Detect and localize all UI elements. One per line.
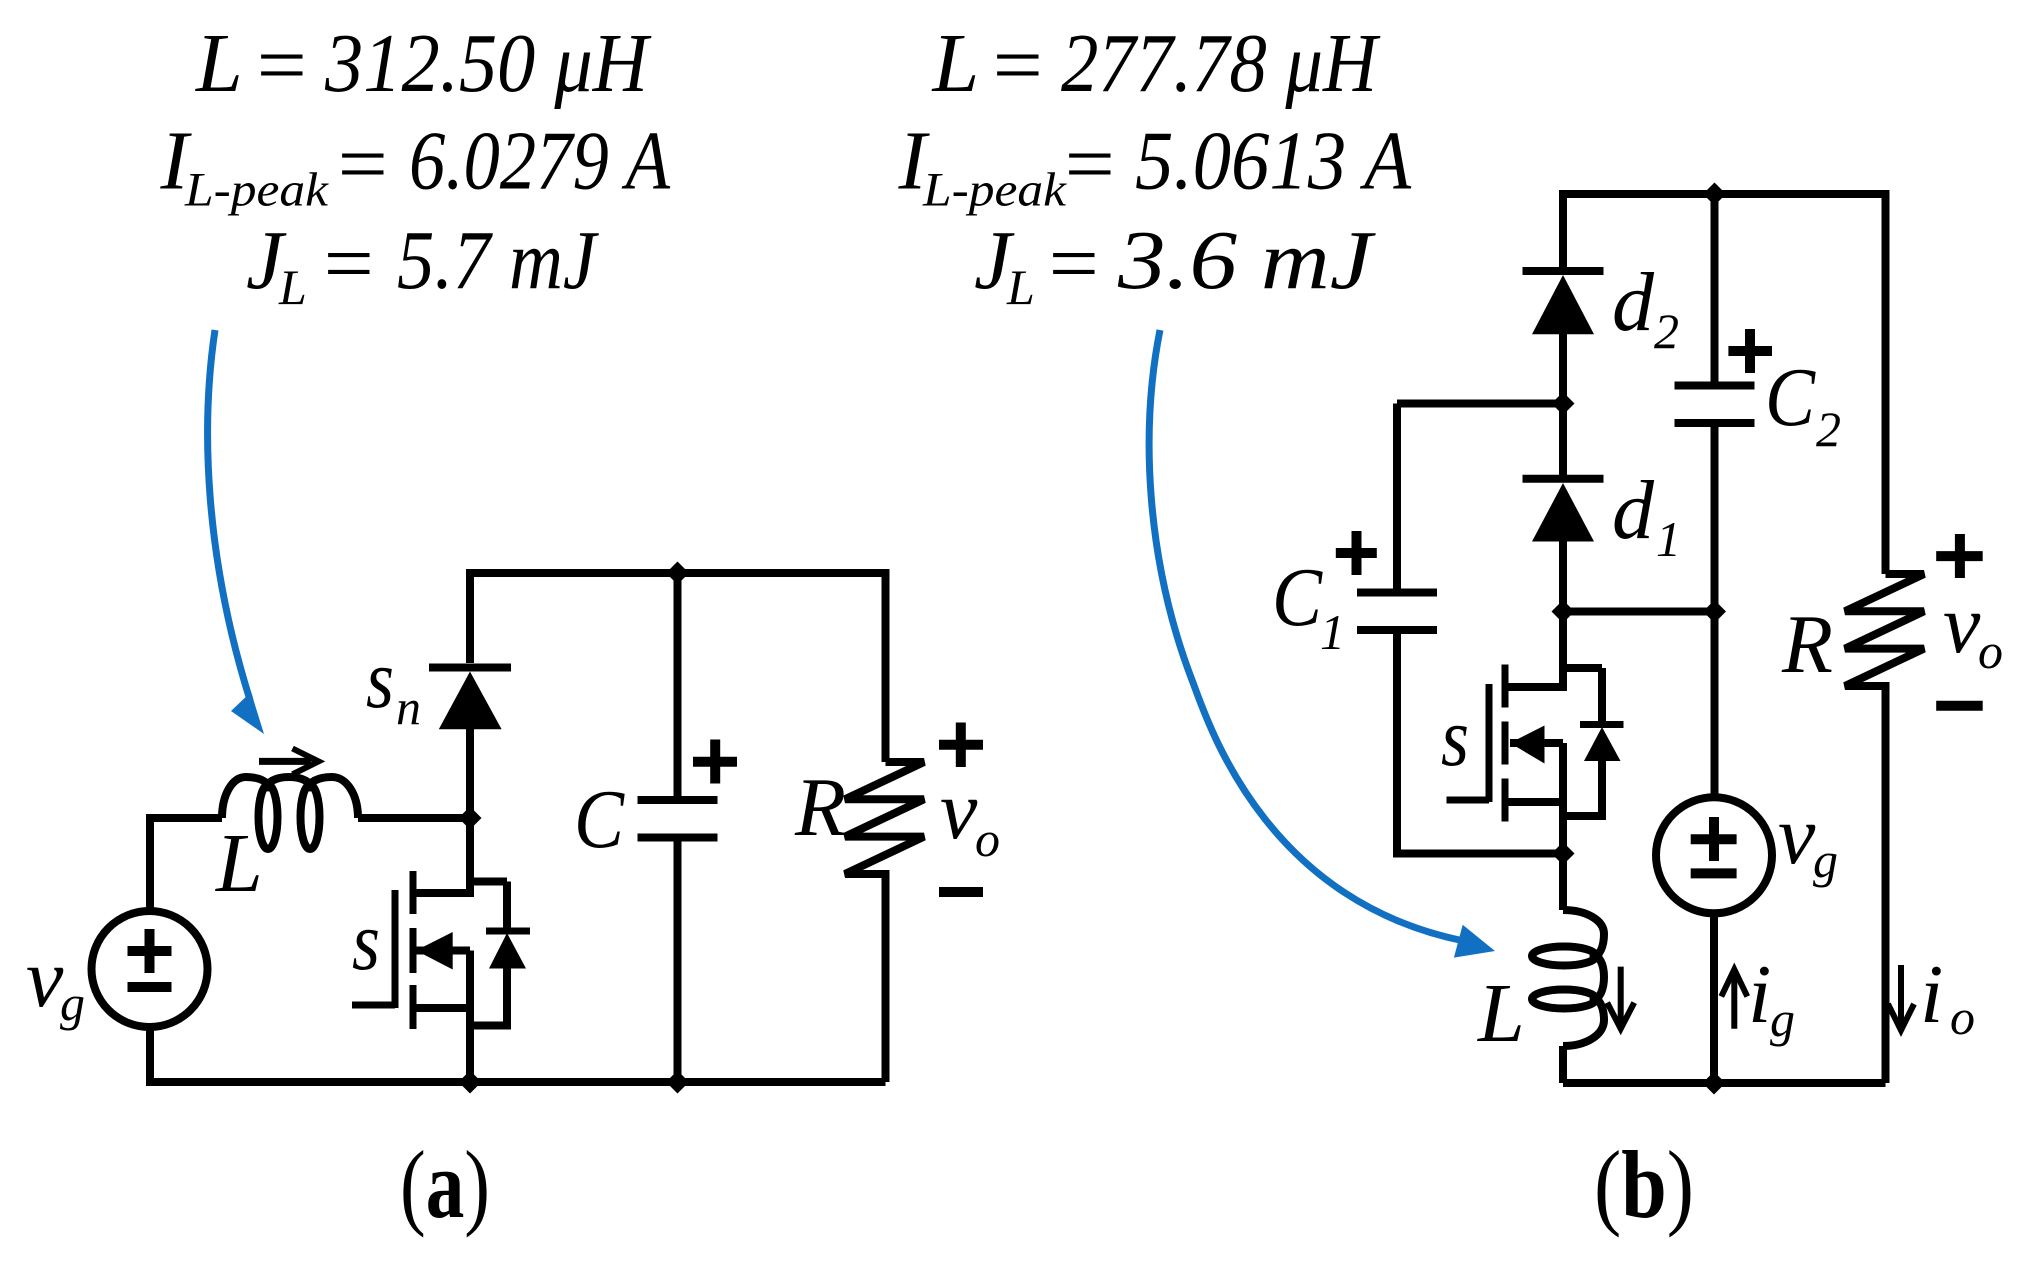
svg-text:i: i [1748,948,1771,1041]
svg-text:i: i [1920,948,1943,1041]
svg-text:L: L [1477,967,1525,1060]
node junction (a) top rail / C [666,562,689,585]
svg-text:C: C [1272,551,1323,644]
svg-text:1: 1 [1320,604,1345,660]
source branch v_g (b) [1656,612,1772,1084]
svg-text:s: s [366,633,394,726]
diode s_n (a) [429,668,511,819]
svg-text:o: o [1950,989,1975,1045]
node junction (b) C2 / source branch [1703,600,1726,623]
wire: (b) bottom rail [1563,1079,1886,1087]
svg-text:d: d [1612,464,1655,557]
capacitor C2 (b) [1675,194,1773,612]
capacitor C1 (b) [1336,404,1563,854]
svg-text:277.78 μH: 277.78 μH [1061,17,1381,110]
current arrow i_g (b) [1721,969,1747,1028]
svg-text:L: L [932,17,980,110]
svg-text:g: g [1770,991,1795,1047]
svg-text:=: = [318,218,378,311]
svg-text:o: o [1978,623,2003,679]
svg-text:=: = [251,19,311,112]
svg-text:5.0613 A: 5.0613 A [1135,115,1412,208]
svg-text:(a): (a) [400,1131,490,1238]
MOSFET s (b) [1447,612,1624,854]
svg-text:s: s [1441,691,1469,784]
svg-text:g: g [1813,832,1838,888]
svg-text:v: v [1943,578,1981,671]
node junction (b) MOSFET / C1 / L [1552,842,1575,865]
svg-text:s: s [352,895,380,988]
svg-text:312.50 μH: 312.50 μH [324,17,652,110]
svg-text:L-peak: L-peak [922,164,1068,217]
svg-text:o: o [975,811,1000,867]
annotation text block for circuit (b) [898,17,1412,315]
svg-text:3.6 mJ: 3.6 mJ [1117,214,1376,307]
svg-text:C: C [574,773,625,866]
svg-text:=: = [1059,118,1119,211]
wire: (b) top rail and right branch down to R [1563,194,1886,574]
svg-text:L: L [195,17,243,110]
wire: (a) node between L and switch leg [358,814,470,822]
svg-text:v: v [940,764,978,857]
blue callout arrow (a) [208,330,264,734]
svg-text:6.0279 A: 6.0279 A [409,115,671,208]
diode d2 (b) [1523,271,1604,404]
svg-text:R: R [1781,598,1833,691]
node junction (a) ground / C [666,1071,689,1094]
svg-text:=: = [987,19,1047,112]
svg-text:g: g [60,975,85,1031]
node junction (b) d2 / d1 / C1 [1552,392,1575,415]
inductor L (b) coil branch [1532,854,1604,1084]
svg-text:d: d [1612,256,1655,349]
wire: (b) node1 branch to C1 [1397,400,1563,408]
capacitor C (a) [638,573,738,1082]
current arrow i_o (b) [1888,965,1914,1030]
svg-text:(b): (b) [1594,1131,1694,1238]
voltage source v_g (a) [92,911,208,1027]
resistor R (a) zigzag [845,723,983,1083]
wire: (a) switch leg up / top rail / resistor drop [470,573,886,762]
node junction (b) bottom rail / source branch [1703,1072,1726,1095]
svg-text:2: 2 [1654,303,1679,359]
wire: (b) node2 horizontal to C2 branch [1563,608,1715,616]
diode d1 (b) [1523,404,1604,612]
annotation text block for circuit (a) [160,17,671,315]
svg-text:R: R [794,761,846,854]
svg-text:5.7 mJ: 5.7 mJ [397,214,599,307]
svg-text:L: L [215,817,263,910]
MOSFET s (a) [352,818,530,1082]
svg-text:=: = [332,118,392,211]
wire: (a) input loop left side [150,818,222,911]
svg-text:L: L [278,259,307,315]
wire: (a) source bottom to ground rail [150,1027,886,1082]
blue callout arrow (b) [1149,330,1495,958]
svg-text:C: C [1765,351,1816,444]
svg-text:v: v [26,932,64,1025]
svg-text:n: n [396,679,421,735]
svg-text:L-peak: L-peak [184,164,330,217]
svg-text:v: v [1778,789,1816,882]
node junction (b) d1 / MOSFET [1552,600,1575,623]
node junction (b) top rail / C2 [1703,183,1726,206]
node junction (a) ground / MOSFET [459,1071,482,1094]
current direction arrow above L (a) [259,749,319,775]
inductor L (a) coil [222,777,358,849]
svg-text:L: L [1006,259,1035,315]
current arrow beside L (b) [1607,967,1634,1029]
svg-text:=: = [1043,218,1103,311]
svg-text:2: 2 [1816,401,1841,457]
node junction (a) L / diode / MOSFET [459,807,482,830]
resistor R (b) zigzag [1845,534,1983,1083]
svg-text:1: 1 [1656,511,1681,567]
